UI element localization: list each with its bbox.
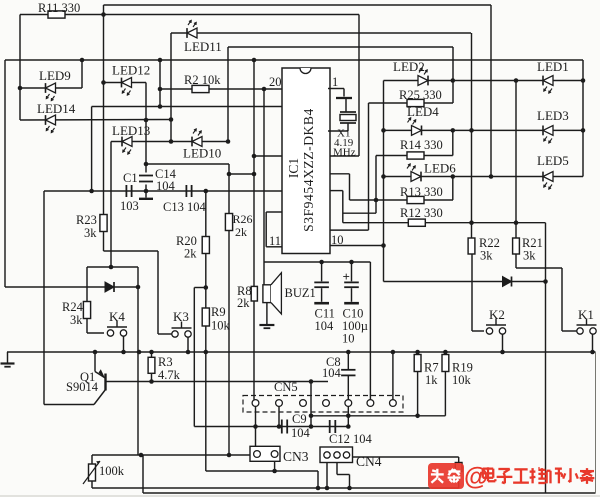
svg-text:S9014: S9014 (66, 380, 99, 394)
svg-text:LED12: LED12 (112, 63, 150, 78)
svg-text:LED1: LED1 (537, 59, 569, 74)
svg-text:R23: R23 (76, 213, 97, 227)
svg-text:LED13: LED13 (112, 123, 150, 138)
svg-text:R12 330: R12 330 (400, 206, 443, 220)
svg-text:LED14: LED14 (37, 101, 76, 116)
svg-text:LED5: LED5 (537, 153, 569, 168)
svg-text:R24: R24 (62, 300, 84, 314)
svg-text:R9: R9 (211, 305, 226, 319)
svg-text:R3: R3 (158, 355, 173, 369)
svg-text:CN5: CN5 (274, 380, 298, 394)
svg-text:LED3: LED3 (537, 108, 569, 123)
svg-text:K3: K3 (173, 309, 189, 324)
svg-text:LED10: LED10 (183, 146, 221, 161)
svg-text:R25 330: R25 330 (399, 88, 442, 102)
svg-text:100k: 100k (99, 464, 125, 478)
svg-text:R2 10k: R2 10k (184, 73, 221, 87)
svg-text:10k: 10k (452, 373, 472, 387)
svg-text:CN3: CN3 (283, 449, 309, 464)
svg-text:103: 103 (120, 199, 139, 213)
svg-text:10: 10 (342, 332, 355, 346)
svg-text:R26: R26 (233, 212, 253, 226)
svg-text:C12 104: C12 104 (329, 432, 372, 446)
svg-text:11: 11 (269, 234, 281, 248)
svg-text:C13 104: C13 104 (163, 200, 206, 214)
svg-text:104: 104 (291, 426, 311, 440)
svg-text:BUZ1: BUZ1 (285, 286, 316, 300)
svg-text:LED4: LED4 (407, 104, 439, 119)
svg-text:R14 330: R14 330 (400, 138, 443, 152)
svg-text:1: 1 (332, 75, 338, 89)
svg-text:104: 104 (322, 366, 342, 380)
svg-text:R11 330: R11 330 (38, 1, 80, 15)
svg-text:IC1: IC1 (286, 158, 301, 178)
svg-text:2k: 2k (237, 296, 250, 310)
svg-text:LED2: LED2 (393, 59, 425, 74)
svg-text:1k: 1k (425, 373, 438, 387)
svg-text:10: 10 (331, 233, 344, 247)
svg-text:3k: 3k (70, 313, 83, 327)
svg-text:2k: 2k (184, 247, 197, 261)
svg-text:K1: K1 (578, 307, 594, 322)
svg-text:LED11: LED11 (184, 39, 222, 54)
svg-text:LED6: LED6 (424, 161, 456, 176)
svg-text:C9: C9 (292, 412, 307, 426)
svg-text:104: 104 (156, 179, 176, 193)
svg-text:K4: K4 (109, 309, 125, 324)
svg-text:4.7k: 4.7k (158, 368, 181, 382)
svg-text:3k: 3k (480, 249, 493, 263)
svg-text:20: 20 (269, 75, 282, 89)
svg-text:104: 104 (315, 319, 335, 333)
svg-text:3k: 3k (523, 249, 536, 263)
svg-text:MHz: MHz (333, 147, 356, 159)
svg-text:K2: K2 (489, 307, 505, 322)
svg-text:R13 330: R13 330 (400, 185, 443, 199)
svg-text:+: + (343, 269, 350, 284)
svg-text:CN4: CN4 (356, 454, 382, 469)
svg-text:LED9: LED9 (39, 68, 71, 83)
svg-text:10k: 10k (211, 319, 231, 333)
svg-text:3k: 3k (84, 226, 97, 240)
svg-text:2k: 2k (235, 225, 247, 239)
svg-text:S3F9454XZZ-DKB4: S3F9454XZZ-DKB4 (301, 108, 316, 232)
svg-text:C1: C1 (123, 171, 138, 185)
